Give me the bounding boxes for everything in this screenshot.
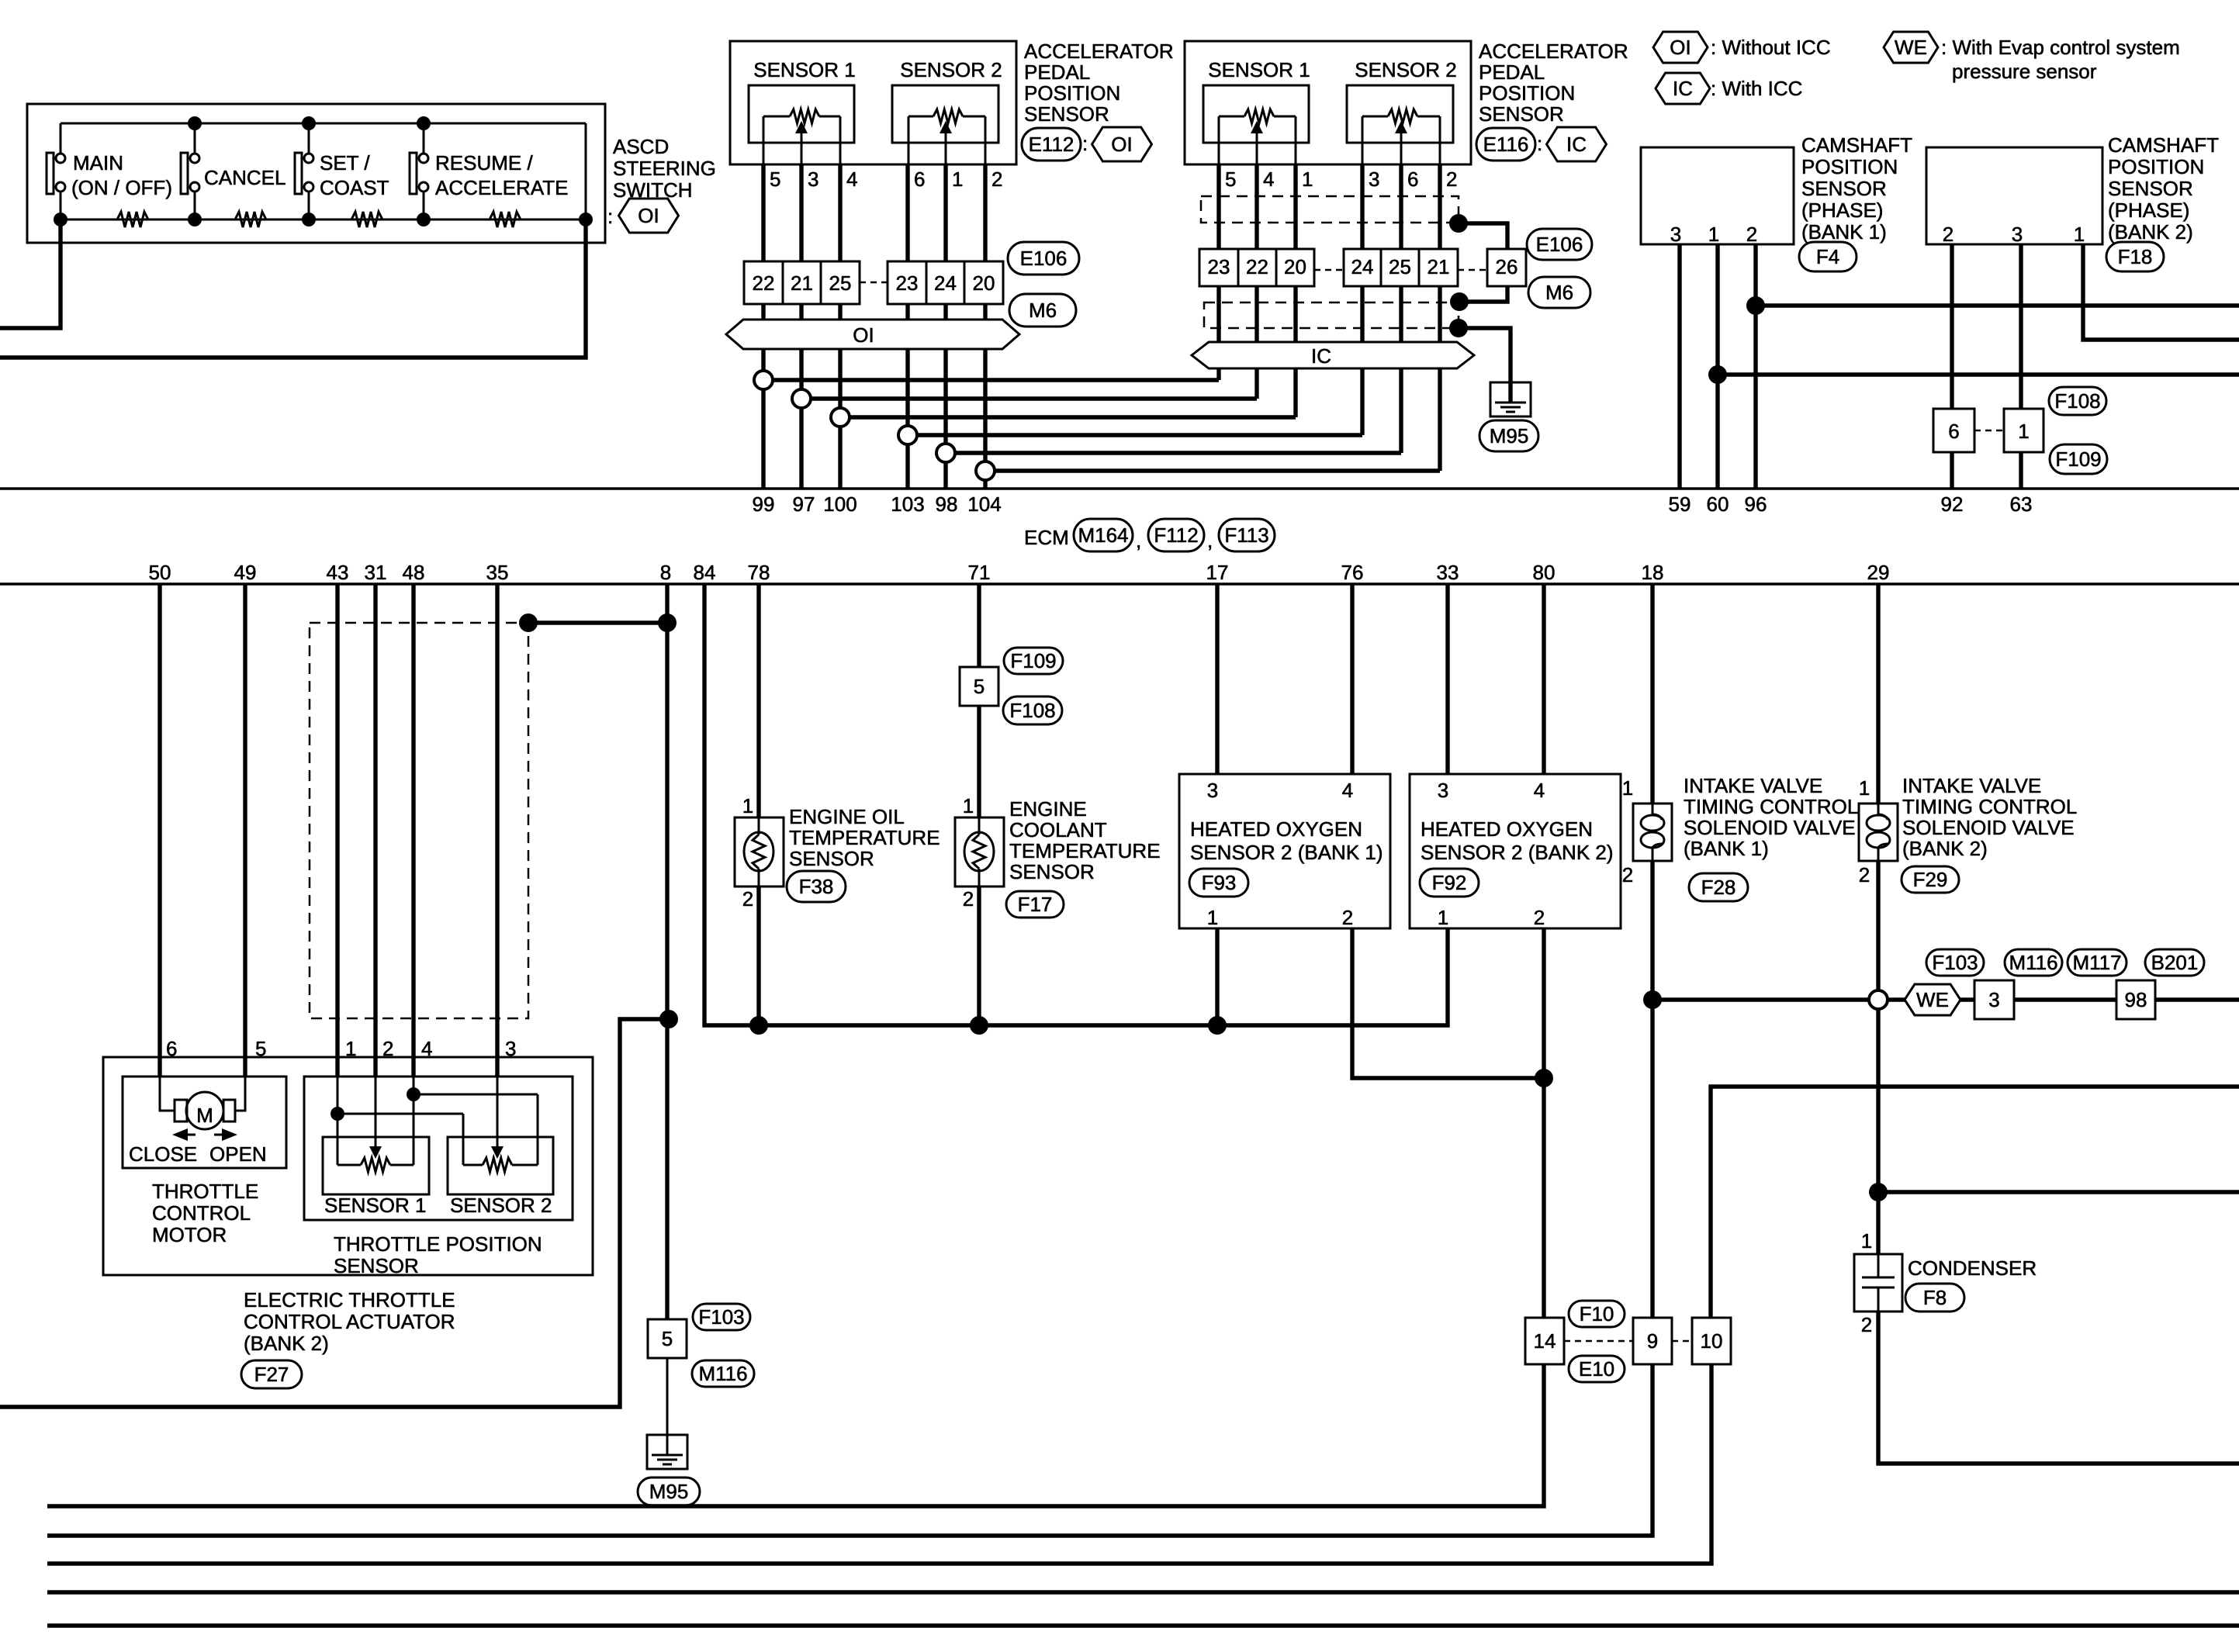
svg-text:SENSOR 2: SENSOR 2: [1355, 58, 1457, 81]
svg-text:2: 2: [1622, 863, 1633, 886]
svg-text:WE: WE: [1895, 36, 1927, 59]
svg-text:1: 1: [1861, 1229, 1872, 1253]
svg-text:25: 25: [1389, 255, 1411, 278]
svg-text:ACCELERATE: ACCELERATE: [435, 176, 568, 199]
svg-text:CONTROL ACTUATOR: CONTROL ACTUATOR: [244, 1310, 455, 1333]
svg-text:F112: F112: [1154, 524, 1198, 547]
svg-text:23: 23: [896, 271, 919, 295]
svg-text:M6: M6: [1545, 281, 1573, 304]
svg-text:4: 4: [1342, 779, 1353, 802]
svg-text:SENSOR: SENSOR: [1479, 102, 1564, 126]
svg-text:2: 2: [1859, 863, 1870, 886]
svg-text:80: 80: [1533, 561, 1556, 584]
svg-text:2: 2: [991, 168, 1002, 191]
svg-text:96: 96: [1745, 492, 1767, 516]
svg-text:WE: WE: [1916, 988, 1949, 1011]
svg-text:M164: M164: [1078, 524, 1128, 547]
svg-text:OI: OI: [1111, 133, 1132, 156]
svg-text:M117: M117: [2072, 951, 2121, 974]
svg-text:F113: F113: [1224, 524, 1268, 547]
svg-text:92: 92: [1941, 492, 1964, 516]
svg-text:3: 3: [1369, 168, 1379, 191]
svg-text:SENSOR: SENSOR: [1801, 177, 1887, 200]
svg-text:CLOSE: CLOSE: [129, 1142, 197, 1166]
svg-text:SOLENOID VALVE: SOLENOID VALVE: [1902, 816, 2075, 839]
svg-text:14: 14: [1534, 1329, 1556, 1353]
svg-text:2: 2: [742, 887, 753, 911]
svg-text:3: 3: [505, 1037, 516, 1060]
svg-text:2: 2: [963, 887, 974, 911]
svg-text:60: 60: [1707, 492, 1729, 516]
svg-text:OI: OI: [1670, 36, 1690, 59]
svg-text:OI: OI: [853, 323, 874, 347]
svg-text:F28: F28: [1701, 876, 1736, 899]
svg-text:COOLANT: COOLANT: [1009, 818, 1107, 842]
svg-text:78: 78: [748, 561, 770, 584]
svg-text:99: 99: [753, 492, 775, 516]
svg-text:SENSOR: SENSOR: [2108, 177, 2193, 200]
svg-text:76: 76: [1341, 561, 1364, 584]
svg-text:63: 63: [2010, 492, 2033, 516]
svg-text:(BANK 1): (BANK 1): [1801, 220, 1887, 244]
svg-text:2: 2: [1746, 223, 1757, 246]
svg-text:26: 26: [1496, 255, 1518, 278]
svg-text:1: 1: [963, 794, 974, 817]
svg-text:HEATED OXYGEN: HEATED OXYGEN: [1190, 817, 1362, 841]
svg-text:POSITION: POSITION: [2108, 155, 2204, 178]
svg-text:CONDENSER: CONDENSER: [1908, 1256, 2037, 1280]
svg-text:ASCD: ASCD: [613, 135, 669, 158]
svg-text:10: 10: [1701, 1329, 1723, 1353]
svg-text:3: 3: [1670, 223, 1681, 246]
svg-text:98: 98: [936, 492, 958, 516]
svg-text:F27: F27: [254, 1363, 289, 1386]
svg-text:CANCEL: CANCEL: [204, 166, 285, 189]
svg-text:(PHASE): (PHASE): [1801, 199, 1883, 222]
svg-text:59: 59: [1669, 492, 1691, 516]
svg-text:,: ,: [1136, 529, 1141, 552]
svg-text:ENGINE OIL: ENGINE OIL: [789, 805, 905, 828]
svg-text:1: 1: [345, 1037, 356, 1060]
svg-text:1: 1: [1207, 906, 1218, 929]
svg-text:F17: F17: [1018, 893, 1053, 916]
svg-text:CAMSHAFT: CAMSHAFT: [1801, 133, 1912, 157]
svg-text:POSITION: POSITION: [1479, 81, 1575, 105]
svg-text:4: 4: [846, 168, 857, 191]
svg-text:E10: E10: [1579, 1357, 1614, 1381]
svg-text:8: 8: [660, 561, 671, 584]
svg-text:5: 5: [255, 1037, 266, 1060]
svg-text:E112: E112: [1029, 133, 1075, 156]
svg-text:F103: F103: [698, 1305, 744, 1329]
svg-text:: Without ICC: : Without ICC: [1711, 36, 1831, 59]
svg-text:31: 31: [365, 561, 387, 584]
svg-text:F108: F108: [1009, 699, 1055, 722]
svg-text:SENSOR 2: SENSOR 2: [450, 1194, 552, 1217]
svg-text:MAIN: MAIN: [73, 151, 123, 175]
svg-text:F108: F108: [2054, 389, 2100, 413]
svg-text:THROTTLE POSITION: THROTTLE POSITION: [334, 1232, 542, 1256]
svg-text:: With ICC: : With ICC: [1711, 77, 1802, 100]
svg-text:33: 33: [1437, 561, 1459, 584]
svg-text:F4: F4: [1816, 245, 1839, 268]
svg-text:48: 48: [403, 561, 425, 584]
svg-text:22: 22: [753, 271, 775, 295]
svg-text:CONTROL: CONTROL: [152, 1201, 251, 1225]
svg-text:6: 6: [1407, 168, 1418, 191]
svg-text:TIMING CONTROL: TIMING CONTROL: [1902, 795, 2077, 818]
svg-text::: :: [1082, 132, 1088, 155]
svg-text:SET /: SET /: [320, 151, 370, 175]
svg-text:M: M: [196, 1104, 213, 1127]
svg-text:TEMPERATURE: TEMPERATURE: [789, 826, 940, 849]
svg-text:84: 84: [694, 561, 716, 584]
svg-text:2: 2: [1446, 168, 1457, 191]
svg-text:M95: M95: [1490, 424, 1529, 448]
svg-text:2: 2: [382, 1037, 393, 1060]
svg-text:F10: F10: [1580, 1302, 1614, 1325]
svg-text:SENSOR: SENSOR: [789, 847, 874, 870]
svg-text:6: 6: [914, 168, 925, 191]
svg-text:(BANK 2): (BANK 2): [1902, 837, 1988, 860]
svg-text:SENSOR 2 (BANK 2): SENSOR 2 (BANK 2): [1421, 841, 1614, 864]
svg-text:SENSOR: SENSOR: [1024, 102, 1109, 126]
svg-text:6: 6: [166, 1037, 177, 1060]
svg-text:SENSOR 1: SENSOR 1: [753, 58, 856, 81]
svg-text:SENSOR: SENSOR: [334, 1254, 419, 1277]
svg-text:M6: M6: [1029, 299, 1057, 322]
svg-text:CAMSHAFT: CAMSHAFT: [2108, 133, 2219, 157]
svg-text:3: 3: [1988, 988, 1999, 1011]
svg-text:F109: F109: [2055, 448, 2101, 471]
svg-text:22: 22: [1246, 255, 1268, 278]
svg-text:104: 104: [967, 492, 1001, 516]
svg-text:2: 2: [1861, 1313, 1872, 1336]
svg-text:4: 4: [421, 1037, 432, 1060]
svg-text:43: 43: [327, 561, 349, 584]
svg-text:71: 71: [968, 561, 991, 584]
svg-text:,: ,: [1207, 529, 1213, 552]
svg-text:SENSOR 2 (BANK 1): SENSOR 2 (BANK 1): [1190, 841, 1383, 864]
svg-text:(ON / OFF): (ON / OFF): [71, 176, 172, 199]
svg-text:98: 98: [2125, 988, 2147, 1011]
svg-text:5: 5: [662, 1327, 673, 1350]
svg-text:STEERING: STEERING: [613, 157, 716, 180]
svg-text:INTAKE VALVE: INTAKE VALVE: [1684, 774, 1822, 797]
svg-text:F109: F109: [1010, 649, 1056, 672]
svg-text:M95: M95: [649, 1480, 689, 1503]
svg-text:18: 18: [1642, 561, 1664, 584]
svg-text:HEATED OXYGEN: HEATED OXYGEN: [1421, 817, 1593, 841]
svg-text:50: 50: [149, 561, 171, 584]
svg-text:1: 1: [1622, 776, 1633, 800]
svg-text:OPEN: OPEN: [209, 1142, 267, 1166]
svg-text:3: 3: [808, 168, 818, 191]
svg-text:21: 21: [791, 271, 813, 295]
svg-text::: :: [607, 205, 613, 228]
svg-text:COAST: COAST: [320, 176, 389, 199]
svg-text:SENSOR 1: SENSOR 1: [324, 1194, 427, 1217]
svg-text:3: 3: [2012, 223, 2023, 246]
svg-text:5: 5: [770, 168, 780, 191]
svg-text:1: 1: [952, 168, 963, 191]
svg-text:M116: M116: [698, 1362, 747, 1385]
svg-text:5: 5: [1225, 168, 1236, 191]
svg-text:F93: F93: [1202, 871, 1237, 894]
svg-text:9: 9: [1647, 1329, 1658, 1353]
svg-text:1: 1: [1438, 906, 1448, 929]
svg-text:2: 2: [1342, 906, 1353, 929]
svg-text:1: 1: [1302, 168, 1313, 191]
svg-text:POSITION: POSITION: [1024, 81, 1120, 105]
svg-text:F8: F8: [1923, 1286, 1947, 1309]
svg-text:SOLENOID VALVE: SOLENOID VALVE: [1684, 816, 1856, 839]
svg-text:TIMING CONTROL: TIMING CONTROL: [1684, 795, 1858, 818]
svg-text:20: 20: [1284, 255, 1306, 278]
svg-text:pressure sensor: pressure sensor: [1952, 60, 2097, 83]
svg-text:ACCELERATOR: ACCELERATOR: [1024, 40, 1174, 63]
svg-text:M116: M116: [2009, 951, 2057, 974]
svg-text:20: 20: [973, 271, 995, 295]
svg-text:103: 103: [891, 492, 924, 516]
svg-text:29: 29: [1867, 561, 1890, 584]
svg-text:(BANK 1): (BANK 1): [1684, 837, 1769, 860]
svg-text:F29: F29: [1913, 868, 1948, 891]
svg-text:17: 17: [1206, 561, 1229, 584]
svg-text::: :: [1537, 132, 1542, 155]
svg-text:1: 1: [2074, 223, 2085, 246]
svg-text:SENSOR 1: SENSOR 1: [1208, 58, 1310, 81]
svg-text:POSITION: POSITION: [1801, 155, 1898, 178]
svg-text:4: 4: [1534, 779, 1545, 802]
svg-text:IC: IC: [1566, 133, 1587, 156]
svg-text:IC: IC: [1673, 77, 1693, 100]
svg-text:PEDAL: PEDAL: [1479, 60, 1545, 84]
svg-text:IC: IC: [1311, 344, 1331, 368]
svg-text:1: 1: [1859, 776, 1870, 800]
svg-text:E106: E106: [1536, 233, 1583, 256]
svg-text:2: 2: [1534, 906, 1545, 929]
svg-text:3: 3: [1207, 779, 1218, 802]
svg-text:21: 21: [1427, 255, 1450, 278]
svg-text:(PHASE): (PHASE): [2108, 199, 2189, 222]
svg-text:SENSOR 2: SENSOR 2: [900, 58, 1002, 81]
svg-text:E106: E106: [1020, 247, 1068, 270]
svg-text:35: 35: [486, 561, 509, 584]
svg-text:INTAKE VALVE: INTAKE VALVE: [1902, 774, 2041, 797]
svg-text:5: 5: [974, 675, 985, 698]
svg-text:25: 25: [829, 271, 852, 295]
svg-text:3: 3: [1438, 779, 1448, 802]
svg-text:F38: F38: [799, 875, 834, 898]
svg-text:4: 4: [1263, 168, 1274, 191]
svg-text:49: 49: [234, 561, 257, 584]
svg-text:(BANK 2): (BANK 2): [2108, 220, 2193, 244]
svg-text:(BANK 2): (BANK 2): [244, 1332, 329, 1355]
svg-text:ENGINE: ENGINE: [1009, 797, 1087, 821]
svg-text:B201: B201: [2151, 951, 2199, 974]
svg-text:F92: F92: [1432, 871, 1467, 894]
svg-text:THROTTLE: THROTTLE: [152, 1180, 258, 1203]
svg-text:TEMPERATURE: TEMPERATURE: [1009, 839, 1161, 862]
svg-text:ELECTRIC THROTTLE: ELECTRIC THROTTLE: [244, 1288, 455, 1312]
svg-text:: With Evap control system: : With Evap control system: [1941, 36, 2180, 59]
svg-text:PEDAL: PEDAL: [1024, 60, 1090, 84]
svg-text:F18: F18: [2118, 245, 2153, 268]
svg-text:RESUME /: RESUME /: [435, 151, 533, 175]
svg-text:OI: OI: [638, 204, 659, 227]
svg-text:1: 1: [1708, 223, 1719, 246]
svg-text:F103: F103: [1932, 951, 1978, 974]
svg-text:100: 100: [823, 492, 856, 516]
svg-text:2: 2: [1943, 223, 1954, 246]
svg-text:23: 23: [1208, 255, 1230, 278]
svg-text:1: 1: [2018, 420, 2029, 443]
svg-text:24: 24: [1351, 255, 1374, 278]
svg-text:ACCELERATOR: ACCELERATOR: [1479, 40, 1628, 63]
svg-text:24: 24: [934, 271, 957, 295]
svg-text:E116: E116: [1483, 133, 1529, 156]
svg-text:ECM: ECM: [1024, 526, 1069, 549]
svg-text:97: 97: [793, 492, 815, 516]
svg-text:SENSOR: SENSOR: [1009, 860, 1095, 883]
svg-text:1: 1: [742, 794, 753, 817]
svg-text:6: 6: [1948, 420, 1959, 443]
svg-text:MOTOR: MOTOR: [152, 1223, 227, 1246]
